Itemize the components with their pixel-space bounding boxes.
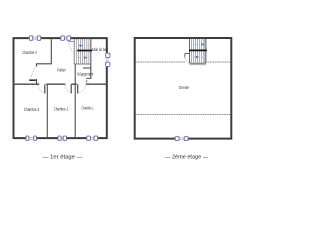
svg-text:— 2ème étage —: — 2ème étage — [165,154,209,160]
svg-text:Salle de bain: Salle de bain [92,47,109,52]
svg-text:Chambre 2: Chambre 2 [54,107,69,112]
svg-text:Chambre 1: Chambre 1 [82,105,94,110]
svg-text:Dégagement: Dégagement [77,71,93,76]
svg-text:Grenier: Grenier [179,85,190,90]
svg-text:— 1er étage —: — 1er étage — [43,154,83,160]
svg-text:Chambre 4: Chambre 4 [22,50,37,55]
svg-text:Palier: Palier [57,68,66,73]
svg-text:Chambre 3: Chambre 3 [24,107,40,112]
